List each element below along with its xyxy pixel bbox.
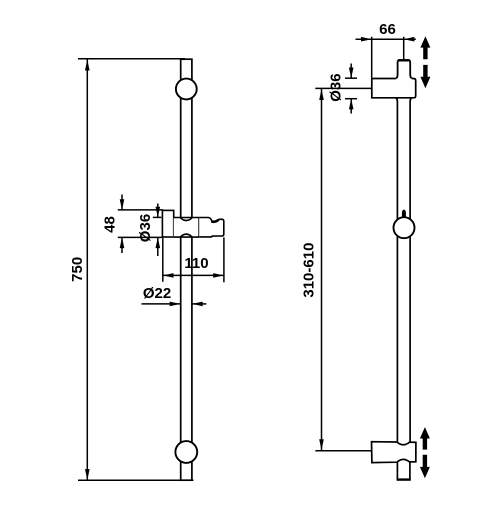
dimension 310-610 arrow down: [319, 439, 324, 450]
movement arrow bottom down: [420, 455, 430, 479]
dimension 66 line and arrows: [356, 37, 416, 42]
dimension 48 extension line bottom: [118, 236, 164, 238]
dimension 750 line: [86, 59, 88, 480]
right view wall stub top: [396, 60, 412, 78]
left view bottom ball: [175, 441, 197, 463]
svg-text:110: 110: [184, 255, 208, 272]
holder clamp plate: [162, 210, 173, 237]
svg-text:Ø36: Ø36: [137, 214, 154, 242]
dimension 48 line and arrows: [120, 195, 125, 254]
svg-text:48: 48: [102, 216, 119, 233]
svg-text:750: 750: [69, 257, 86, 282]
dimension 310-610 extension line bottom: [315, 450, 371, 452]
dimension 66 extension line left: [371, 37, 373, 78]
left view top ball: [176, 79, 197, 100]
dimension diameter 22 line and arrows: [142, 302, 207, 307]
dimension 750 arrow down: [85, 469, 90, 480]
dimension 750 extension line bottom: [78, 479, 194, 481]
right view bracket arm: [372, 79, 416, 98]
right view bottom holder: [372, 442, 416, 463]
right view slide bar middle: [396, 98, 412, 442]
dimension diameter 36 right extension ticks: [345, 78, 357, 99]
right view bottom stub: [397, 462, 411, 479]
svg-text:Ø36: Ø36: [328, 73, 345, 101]
dimension 110 arrow left: [163, 273, 174, 278]
dimension 110 line: [163, 274, 224, 276]
dimension 750 extension line top: [78, 58, 185, 60]
dimension diameter 36 left extension tick: [153, 216, 162, 218]
right view ball: [394, 217, 415, 238]
movement arrow bottom up: [420, 427, 430, 450]
svg-text:66: 66: [379, 21, 396, 38]
dimension diameter 36 right line and arrows: [349, 64, 354, 114]
movement arrow top down: [420, 65, 430, 88]
left view slide bar: [181, 59, 192, 480]
dimension 310-610 extension line top: [315, 87, 371, 89]
dimension 310-610 arrow up: [319, 89, 324, 100]
right view wall stub top cap: [398, 59, 409, 61]
dimension 48 extension line top: [118, 209, 164, 211]
dimension 110 extension line right: [223, 237, 225, 282]
dimension 110 arrow right: [213, 273, 224, 278]
holder body: [174, 218, 200, 238]
dimension 750 arrow up: [85, 59, 90, 70]
dimension 66 extension line right: [403, 37, 405, 60]
holder cup: [199, 218, 224, 237]
movement arrow top up: [420, 36, 430, 59]
right view pin above ball: [402, 210, 406, 218]
dimension 310-610 line: [321, 89, 323, 450]
svg-text:310-610: 310-610: [300, 243, 317, 298]
svg-text:Ø22: Ø22: [143, 285, 171, 302]
dimension diameter 36 left line and arrows: [156, 204, 161, 257]
dimension 110 extension line left: [162, 238, 164, 282]
